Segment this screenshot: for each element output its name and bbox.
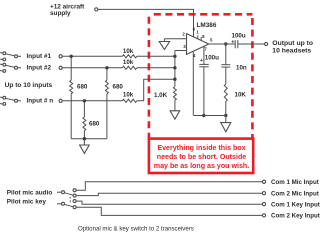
svg-text:Pilot mic audio: Pilot mic audio (7, 189, 53, 196)
svg-text:Com 2 Key Input: Com 2 Key Input (271, 213, 320, 220)
svg-text:10k: 10k (123, 48, 134, 55)
svg-text:1.0K: 1.0K (154, 92, 168, 99)
svg-text:10k: 10k (123, 91, 134, 98)
svg-text:may be as long as you wish.: may be as long as you wish. (154, 162, 249, 170)
svg-text:supply: supply (50, 10, 71, 17)
svg-text:10k: 10k (123, 59, 134, 66)
svg-text:100u: 100u (205, 55, 219, 62)
svg-text:Input #2: Input #2 (27, 64, 52, 71)
svg-text:10n: 10n (236, 65, 247, 72)
svg-text:Pilot mic key: Pilot mic key (7, 199, 47, 206)
svg-text:Everything inside this box: Everything inside this box (157, 144, 245, 152)
svg-text:LM386: LM386 (197, 22, 217, 29)
svg-text:680: 680 (113, 83, 124, 90)
svg-text:100u: 100u (232, 32, 246, 39)
svg-text:Output up to: Output up to (272, 40, 313, 47)
svg-text:680: 680 (89, 120, 100, 127)
svg-text:10K: 10K (235, 92, 247, 99)
svg-text:Com 1 Mic Input: Com 1 Mic Input (271, 179, 319, 186)
svg-text:Up to 10 inputs: Up to 10 inputs (5, 82, 53, 89)
svg-text:Com 2 Mic Input: Com 2 Mic Input (271, 191, 319, 198)
svg-text:Input # n: Input # n (27, 97, 54, 104)
svg-text:+: + (231, 39, 234, 45)
svg-text:needs to be short. Outside: needs to be short. Outside (157, 153, 247, 161)
svg-text:Com 1 Key Input: Com 1 Key Input (271, 202, 320, 209)
svg-text:+: + (200, 58, 203, 64)
svg-text:680: 680 (77, 83, 88, 90)
svg-text:10 headsets: 10 headsets (272, 47, 311, 54)
svg-text:Optional mic & key switch to 2: Optional mic & key switch to 2 transceiv… (78, 226, 194, 233)
svg-text:Input #1: Input #1 (27, 53, 52, 60)
